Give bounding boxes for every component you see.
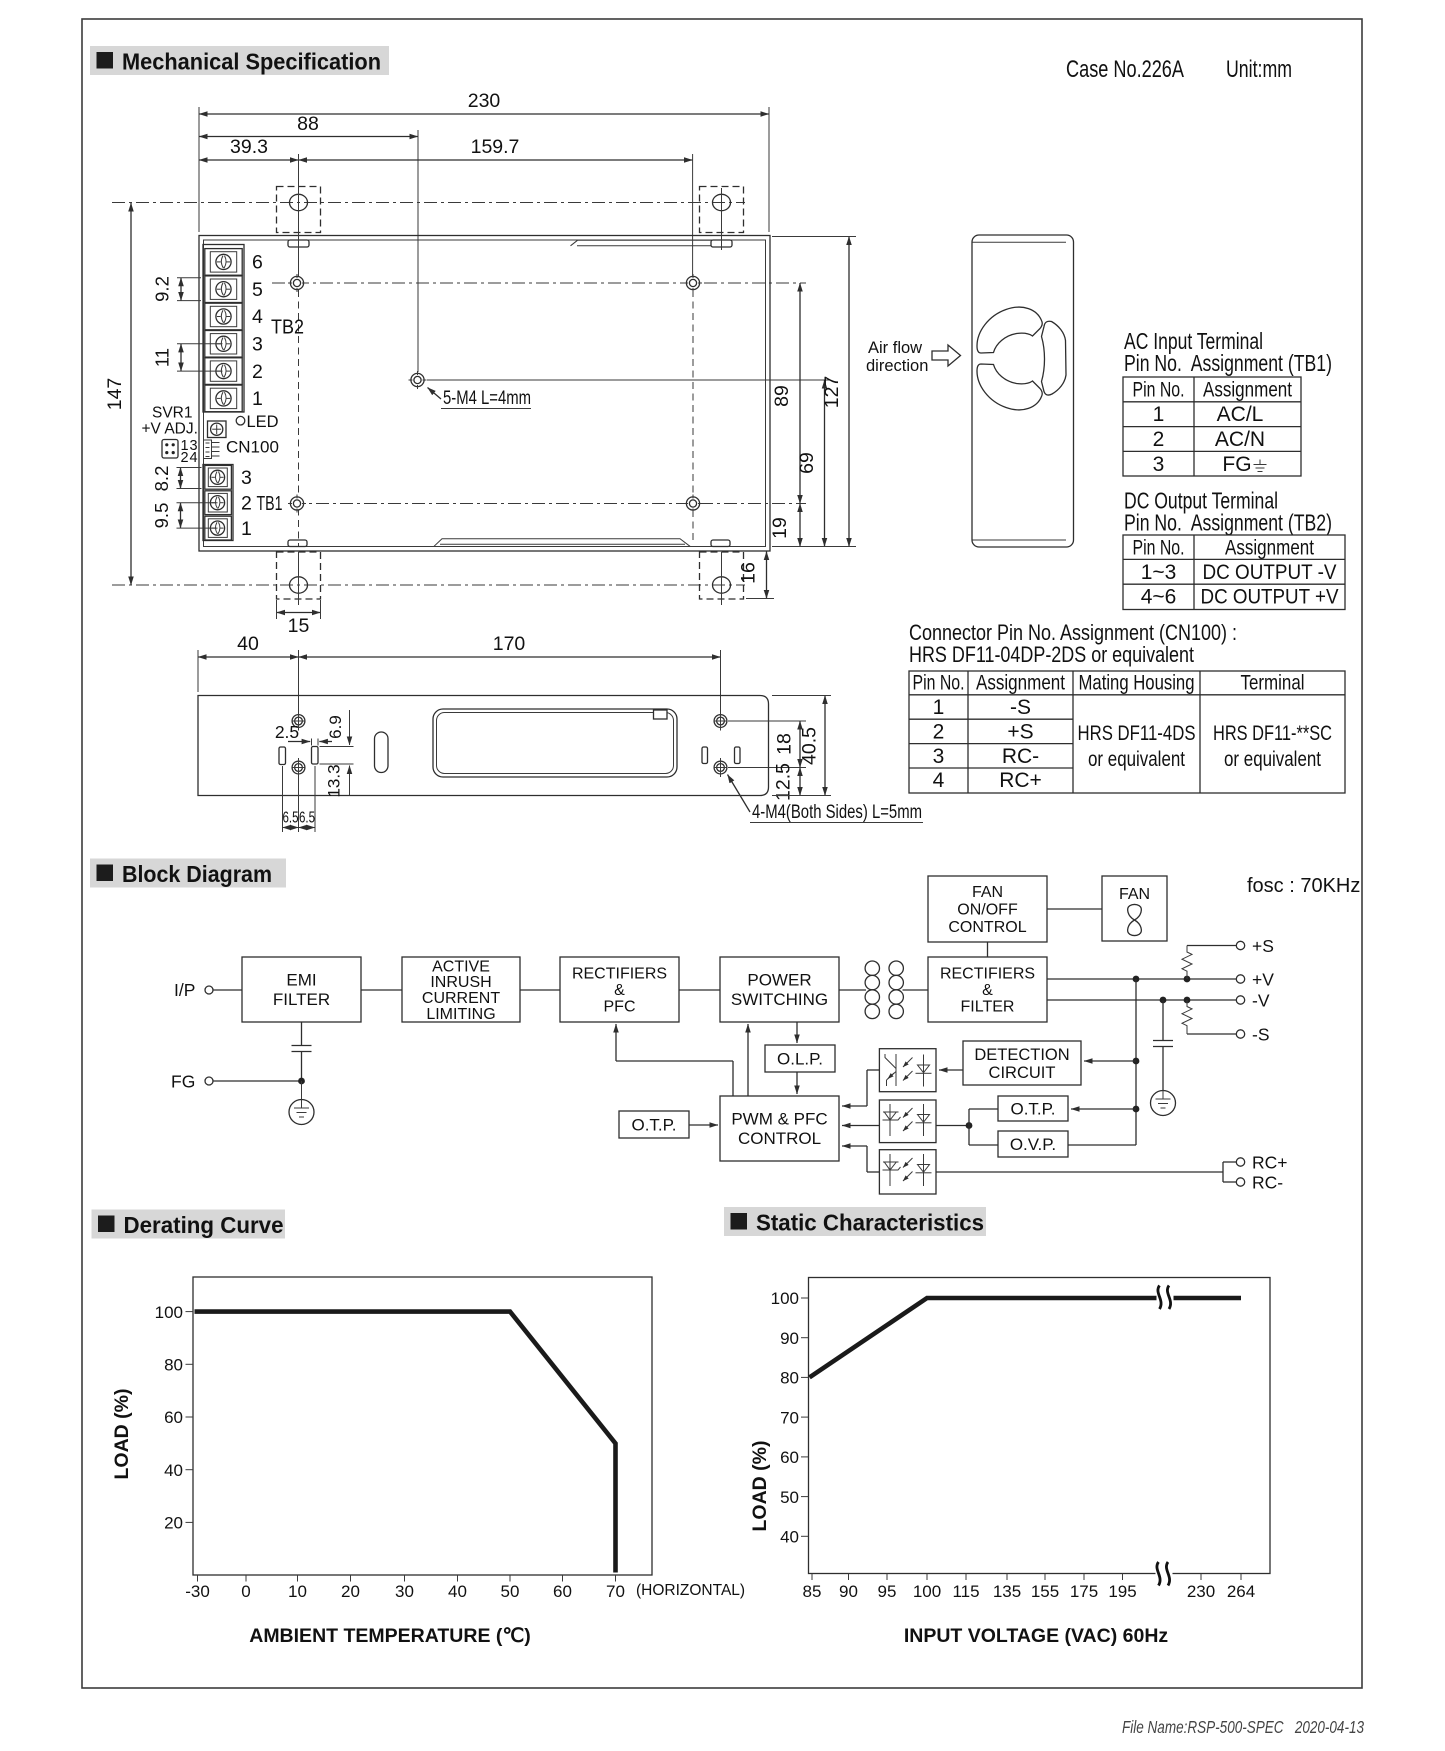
- TB1 pin number labels: [241, 467, 283, 540]
- terminal -S: [1236, 1025, 1269, 1045]
- svg-text:40: 40: [448, 1582, 467, 1601]
- svg-text:AC/L: AC/L: [1217, 403, 1264, 426]
- table TB1 pin assignment: [1123, 377, 1301, 476]
- svg-text:6.9: 6.9: [326, 715, 345, 739]
- svg-text:95: 95: [878, 1582, 897, 1601]
- svg-text:30: 30: [395, 1582, 414, 1601]
- mounting bracket top-left (dashed): [277, 187, 321, 248]
- svg-text:RECTIFIERS: RECTIFIERS: [572, 966, 667, 983]
- svg-text:230: 230: [1187, 1582, 1215, 1601]
- svg-text:10: 10: [288, 1582, 307, 1601]
- label 5-M4 L=4mm with leader: [428, 387, 532, 409]
- wire U2 to PWM: [842, 1125, 879, 1127]
- side view slot left-1: [279, 747, 286, 765]
- svg-text:170: 170: [493, 633, 526, 655]
- fan grille blade right: [1042, 321, 1067, 395]
- svg-text:Assignment: Assignment: [976, 672, 1065, 695]
- svg-text:70: 70: [780, 1408, 799, 1427]
- svg-text:HRS DF11-**SC: HRS DF11-**SC: [1213, 722, 1332, 745]
- svg-text:RECTIFIERS: RECTIFIERS: [940, 966, 1035, 983]
- svg-text:fosc : 70KHz: fosc : 70KHz: [1247, 875, 1360, 897]
- air flow arrow: [932, 345, 961, 366]
- svg-text:DETECTION: DETECTION: [974, 1046, 1069, 1064]
- static chart frame: [809, 1278, 1271, 1574]
- svg-text:Assignment: Assignment: [1203, 379, 1292, 402]
- side view slot right-1: [702, 747, 708, 764]
- svg-text:69: 69: [796, 452, 818, 474]
- svg-text:13.3: 13.3: [325, 764, 344, 797]
- svg-text:HRS DF11-4DS: HRS DF11-4DS: [1078, 722, 1196, 745]
- svg-text:3: 3: [933, 745, 945, 768]
- svg-text:Mechanical Specification: Mechanical Specification: [122, 49, 381, 75]
- svg-text:-30: -30: [185, 1582, 210, 1601]
- capacitor output: [1153, 1000, 1173, 1091]
- svg-text:SWITCHING: SWITCHING: [731, 990, 828, 1009]
- svg-text:4: 4: [190, 450, 198, 466]
- svg-text:Block Diagram: Block Diagram: [122, 861, 272, 887]
- dimension 40.5: [772, 696, 831, 796]
- block EMI FILTER: [242, 957, 361, 1022]
- extension line from 5-M4 hole: [427, 379, 830, 381]
- wire PWM to power switching: [747, 1024, 749, 1096]
- optocoupler U3: [879, 1150, 936, 1194]
- dimension 12.5: [773, 763, 801, 801]
- axis break on curve: [1157, 1286, 1174, 1310]
- svg-text:40: 40: [164, 1461, 183, 1480]
- svg-text:FILTER: FILTER: [273, 990, 330, 1009]
- svg-text:159.7: 159.7: [471, 136, 520, 158]
- svg-text:5: 5: [252, 279, 263, 301]
- svg-text:4: 4: [933, 769, 945, 792]
- resistor +S sense: [1182, 946, 1236, 980]
- svg-text:Static Characteristics: Static Characteristics: [756, 1210, 984, 1236]
- svg-text:11: 11: [152, 348, 173, 367]
- svg-text:CONTROL: CONTROL: [738, 1129, 821, 1148]
- section header: Block Diagram: [90, 859, 286, 888]
- axis break on x-axis: [1156, 1562, 1173, 1586]
- svg-text:PWM & PFC: PWM & PFC: [731, 1110, 827, 1129]
- svg-text:RC-: RC-: [1002, 745, 1039, 768]
- wire power switching to OLP: [796, 1022, 798, 1043]
- svg-text:8.2: 8.2: [151, 466, 172, 492]
- svg-text:FG: FG: [171, 1072, 195, 1092]
- svg-text:O.L.P.: O.L.P.: [777, 1049, 823, 1068]
- svg-text:+V ADJ.: +V ADJ.: [142, 421, 198, 438]
- svg-text:DC OUTPUT +V: DC OUTPUT +V: [1201, 586, 1339, 609]
- table CN100 connector: [909, 671, 1345, 793]
- svg-text:-S: -S: [1010, 696, 1031, 719]
- svg-text:O.T.P.: O.T.P.: [631, 1115, 676, 1134]
- svg-text:89: 89: [771, 385, 793, 407]
- earth ground symbol right: [1151, 1091, 1176, 1116]
- static curve line: [810, 1298, 1242, 1377]
- svg-text:1: 1: [252, 388, 263, 410]
- svg-text:Mating Housing: Mating Housing: [1079, 672, 1195, 695]
- svg-text:16: 16: [738, 562, 760, 584]
- transformer T1: [839, 961, 928, 1019]
- bottom louver groove: [434, 539, 690, 547]
- svg-text:3: 3: [1153, 453, 1165, 476]
- svg-text:20: 20: [164, 1514, 183, 1533]
- svg-text:or equivalent: or equivalent: [1088, 748, 1185, 771]
- chassis hole B1: [288, 495, 306, 513]
- wire -V rail: [1047, 997, 1236, 1004]
- fan end view case: [972, 235, 1074, 547]
- svg-text:19: 19: [769, 517, 791, 539]
- top louver groove: [571, 240, 712, 246]
- wire OLP to PWM: [796, 1072, 798, 1094]
- svg-text:60: 60: [780, 1448, 799, 1467]
- svg-text:2.5: 2.5: [275, 722, 299, 742]
- svg-text:&: &: [614, 982, 625, 999]
- svg-text:40.5: 40.5: [799, 727, 821, 765]
- side view screw bottom-left: [292, 758, 305, 777]
- svg-text:POWER: POWER: [747, 971, 811, 990]
- centerline hole row 1: [272, 282, 806, 284]
- svg-text:Assignment: Assignment: [1225, 537, 1314, 560]
- static x-axis ticks/labels: [803, 1574, 1256, 1602]
- title AC Input Terminal: [1124, 328, 1332, 376]
- svg-text:CURRENT: CURRENT: [422, 990, 500, 1007]
- svg-text:PFC: PFC: [604, 999, 636, 1016]
- side view slot left-2: [312, 747, 319, 765]
- svg-text:2: 2: [181, 450, 189, 466]
- svg-text:CN100: CN100: [226, 438, 279, 457]
- svg-text:1: 1: [241, 518, 252, 540]
- feedback wire rectifiers-PFC from PWM: [616, 1024, 733, 1096]
- fan grille blade top: [977, 307, 1042, 353]
- title Connector Pin No. Assignment (CN100): [909, 620, 1237, 667]
- svg-text:80: 80: [780, 1369, 799, 1388]
- earth ground symbol left: [289, 1081, 314, 1125]
- svg-text:2: 2: [933, 720, 945, 743]
- svg-text:Pin No.: Pin No.: [1133, 379, 1185, 402]
- wire +V rail: [1047, 976, 1236, 983]
- svg-text:1: 1: [933, 696, 945, 719]
- capacitor FG branch: [292, 1022, 312, 1081]
- derating y-axis ticks/labels: [155, 1303, 193, 1533]
- potentiometer SVR1: [208, 421, 227, 438]
- label SVR1 +V ADJ.: [142, 405, 198, 438]
- svg-text:LIMITING: LIMITING: [426, 1006, 495, 1023]
- dimension 159.7: [299, 136, 693, 276]
- svg-text:90: 90: [780, 1329, 799, 1348]
- svg-text:6: 6: [252, 252, 263, 274]
- wire I/P to EMI: [213, 989, 242, 991]
- svg-text:1~3: 1~3: [1141, 561, 1177, 584]
- wire sense to OVP: [1068, 1144, 1136, 1146]
- svg-text:I/P: I/P: [174, 980, 195, 1000]
- mounting bracket top-right (dashed): [700, 187, 744, 251]
- dimension 69: [796, 380, 825, 547]
- wire rectifiers to power switching: [679, 989, 720, 991]
- chassis hole B2: [684, 495, 702, 513]
- section header: Mechanical Specification: [90, 46, 389, 75]
- svg-text:100: 100: [771, 1289, 799, 1308]
- LED indicator: [236, 413, 278, 431]
- terminal block TB1: [203, 465, 233, 541]
- svg-text:Air flow: Air flow: [868, 339, 922, 357]
- wire sense to OTP right: [1071, 1108, 1136, 1110]
- svg-text:15: 15: [288, 615, 310, 637]
- svg-text:100: 100: [155, 1303, 183, 1322]
- svg-text:O.T.P.: O.T.P.: [1010, 1099, 1055, 1118]
- svg-text:18: 18: [774, 733, 796, 755]
- svg-text:DC OUTPUT -V: DC OUTPUT -V: [1203, 561, 1337, 584]
- wire sense to detection: [1084, 1060, 1136, 1062]
- block DETECTION CIRCUIT: [963, 1041, 1081, 1085]
- sense bus vertical: [1133, 979, 1140, 1145]
- dimension 39.3: [199, 136, 299, 160]
- dimension 230: [199, 90, 769, 232]
- wire detection to U1: [939, 1069, 963, 1071]
- dimension 9.2 (TB2 pitch): [152, 276, 202, 302]
- optocoupler U1: [879, 1049, 936, 1092]
- dimension 9.5 (TB1): [151, 503, 218, 529]
- dimension 88: [199, 113, 418, 372]
- svg-text:9.5: 9.5: [151, 503, 172, 529]
- wire RC to U3: [936, 1162, 1236, 1182]
- centerline top brackets: [112, 202, 745, 204]
- junction FG node: [298, 1078, 305, 1085]
- terminal +S: [1236, 936, 1274, 956]
- svg-text:File Name:RSP-500-SPEC 2020-: File Name:RSP-500-SPEC 2020-04-13: [1122, 1717, 1364, 1737]
- svg-text:135: 135: [993, 1582, 1021, 1601]
- svg-text:TB2: TB2: [271, 316, 304, 339]
- svg-text:Pin No.: Pin No.: [913, 672, 965, 695]
- connector CN100 4-pin socket: [162, 440, 178, 459]
- svg-text:4-M4(Both Sides) L=5mm: 4-M4(Both Sides) L=5mm: [752, 801, 922, 823]
- svg-text:+V: +V: [1252, 970, 1274, 990]
- case number note: [1066, 56, 1292, 83]
- terminal FG: [171, 1072, 213, 1092]
- side view oval hole: [375, 732, 389, 773]
- svg-text:Case No.226A: Case No.226A: [1066, 56, 1184, 83]
- static y-axis ticks/labels: [771, 1289, 809, 1546]
- label Air flow direction: [866, 339, 928, 375]
- terminal RC-: [1236, 1173, 1283, 1193]
- svg-text:127: 127: [821, 376, 843, 409]
- svg-text:RC-: RC-: [1252, 1173, 1283, 1193]
- svg-text:FG: FG: [1222, 453, 1251, 476]
- centerline hole row 2: [292, 503, 806, 505]
- svg-text:230: 230: [468, 90, 501, 112]
- svg-text:100: 100: [913, 1582, 941, 1601]
- svg-text:Pin No.: Pin No.: [1133, 537, 1185, 560]
- block ACTIVE INRUSH CURRENT LIMITING: [402, 957, 520, 1023]
- svg-text:+S: +S: [1252, 936, 1274, 956]
- svg-text:INPUT VOLTAGE (VAC) 60Hz: INPUT VOLTAGE (VAC) 60Hz: [904, 1625, 1169, 1647]
- bracket centerline verticals: [299, 154, 694, 546]
- block RECTIFIERS &amp; FILTER: [928, 957, 1047, 1022]
- block O.T.P. left: [619, 1111, 689, 1138]
- block PWM &amp; PFC CONTROL: [720, 1096, 839, 1161]
- side view screw top-right: [714, 712, 727, 731]
- chassis hole center 5-M4: [409, 371, 427, 389]
- svg-text:4~6: 4~6: [1141, 586, 1177, 609]
- side view screw bottom-right: [714, 758, 727, 777]
- optocoupler U2: [879, 1100, 936, 1143]
- dimension 147: [104, 203, 131, 585]
- svg-text:-V: -V: [1252, 991, 1270, 1011]
- dimension 18: [728, 721, 806, 768]
- wire OTP to PWM: [689, 1124, 718, 1126]
- svg-text:264: 264: [1227, 1582, 1255, 1601]
- svg-text:SVR1: SVR1: [152, 405, 193, 422]
- svg-text:+S: +S: [1007, 720, 1033, 743]
- svg-text:Terminal: Terminal: [1241, 672, 1305, 695]
- svg-text:90: 90: [839, 1582, 858, 1601]
- svg-text:60: 60: [164, 1408, 183, 1427]
- CN100 pin labels 1 3 / 2 4: [181, 438, 198, 466]
- svg-text:2: 2: [241, 492, 252, 514]
- svg-text:FAN: FAN: [1119, 886, 1150, 903]
- svg-text:0: 0: [241, 1582, 250, 1601]
- svg-text:195: 195: [1108, 1582, 1136, 1601]
- svg-text:-S: -S: [1252, 1025, 1270, 1045]
- dimension 127: [772, 237, 856, 547]
- derating curve line: [195, 1312, 616, 1573]
- label 4-M4(Both Sides) L=5mm with leader: [728, 775, 924, 824]
- terminal -V: [1236, 991, 1270, 1011]
- terminal block TB2: [203, 245, 244, 413]
- dimension 11 (TB2 pin 2-3 centers): [152, 344, 223, 371]
- svg-text:2: 2: [1153, 428, 1165, 451]
- svg-text:70: 70: [606, 1582, 625, 1601]
- svg-text:2: 2: [252, 361, 263, 383]
- svg-text:175: 175: [1070, 1582, 1098, 1601]
- section header: Static Characteristics: [724, 1207, 986, 1236]
- wire EMI to inrush: [361, 989, 402, 991]
- side view slot right-2: [735, 747, 741, 764]
- svg-text:LOAD (%): LOAD (%): [749, 1441, 771, 1532]
- derating chart frame: [193, 1277, 652, 1575]
- wire fan control to fan: [1047, 908, 1102, 910]
- dimension 15: [277, 600, 321, 637]
- svg-text:50: 50: [780, 1488, 799, 1507]
- svg-text:40: 40: [780, 1528, 799, 1547]
- svg-text:ACTIVE: ACTIVE: [432, 958, 490, 975]
- svg-text:88: 88: [297, 113, 319, 135]
- dimension 40 (side view): [198, 633, 299, 692]
- svg-text:39.3: 39.3: [230, 136, 268, 158]
- mounting bracket bottom-left (dashed): [277, 540, 321, 605]
- svg-text:115: 115: [952, 1582, 979, 1601]
- svg-text:50: 50: [501, 1582, 520, 1601]
- svg-text:6.5: 6.5: [299, 810, 315, 827]
- terminal +V: [1236, 970, 1274, 990]
- svg-text:RC+: RC+: [1252, 1153, 1288, 1173]
- svg-text:ON/OFF: ON/OFF: [957, 902, 1018, 919]
- terminal RC+: [1236, 1153, 1287, 1173]
- chassis hole A1: [288, 274, 306, 292]
- section header: Derating Curve: [92, 1210, 286, 1239]
- svg-text:AMBIENT TEMPERATURE (℃): AMBIENT TEMPERATURE (℃): [249, 1625, 531, 1647]
- title DC Output Terminal: [1124, 488, 1332, 536]
- fan grille blade bottom: [977, 364, 1042, 410]
- svg-text:LOAD (%): LOAD (%): [111, 1389, 133, 1480]
- svg-text:RC+: RC+: [999, 769, 1042, 792]
- wire inrush to rectifiers: [520, 989, 560, 991]
- terminal I/P: [174, 980, 213, 1000]
- svg-text:or equivalent: or equivalent: [1224, 748, 1321, 771]
- dimension 6.5 6.5: [283, 766, 316, 832]
- svg-text:1: 1: [1153, 403, 1165, 426]
- svg-text:direction: direction: [866, 357, 928, 375]
- svg-text:HRS DF11-04DP-2DS or equivalen: HRS DF11-04DP-2DS or equivalent: [909, 642, 1194, 667]
- svg-text:3: 3: [252, 334, 263, 356]
- mounting bracket bottom-right (dashed): [700, 540, 744, 605]
- svg-text:&: &: [982, 982, 993, 999]
- svg-text:(HORIZONTAL): (HORIZONTAL): [636, 1582, 745, 1599]
- dimension 170 (side view): [299, 633, 721, 714]
- block O.T.P. right: [998, 1096, 1068, 1121]
- centerline bottom brackets: [112, 584, 745, 586]
- svg-text:5-M4 L=4mm: 5-M4 L=4mm: [443, 387, 531, 409]
- dimension 89: [771, 283, 800, 504]
- svg-text:147: 147: [104, 378, 126, 411]
- wire U3 to PWM: [842, 1146, 879, 1172]
- wire fan control to rectifiers-filter: [987, 942, 989, 957]
- table TB2 pin assignment: [1123, 535, 1345, 610]
- side view body: [198, 696, 769, 796]
- svg-text:6.5: 6.5: [283, 810, 299, 827]
- svg-text:40: 40: [237, 633, 259, 655]
- derating x-axis ticks/labels: [185, 1575, 625, 1601]
- dimension 16: [738, 552, 775, 599]
- svg-text:Pin No. Assignment (TB2): Pin No. Assignment (TB2): [1124, 510, 1332, 536]
- svg-text:60: 60: [553, 1582, 572, 1601]
- svg-text:Pin No. Assignment (TB1): Pin No. Assignment (TB1): [1124, 350, 1332, 376]
- wire U1 to PWM: [842, 1070, 879, 1106]
- svg-text:Unit:mm: Unit:mm: [1226, 56, 1292, 83]
- dimension 6.9: [320, 710, 354, 747]
- dimension 8.2 (TB1): [151, 466, 202, 492]
- dimension 2.5: [275, 722, 332, 746]
- svg-text:CONTROL: CONTROL: [948, 919, 1026, 936]
- svg-text:EMI: EMI: [286, 971, 316, 990]
- dimension 13.3: [320, 764, 354, 798]
- dimension 19: [769, 504, 800, 547]
- block RECTIFIERS &amp; PFC: [560, 957, 679, 1022]
- svg-text:FAN: FAN: [972, 884, 1003, 901]
- side view screw top-left: [292, 712, 305, 731]
- chassis hole A2: [684, 274, 702, 292]
- svg-text:FILTER: FILTER: [961, 999, 1015, 1016]
- svg-text:INRUSH: INRUSH: [430, 974, 491, 991]
- chassis outline (top view): [199, 236, 770, 552]
- svg-text:Derating Curve: Derating Curve: [124, 1212, 284, 1238]
- block FAN ON/OFF CONTROL: [928, 876, 1047, 942]
- svg-text:20: 20: [341, 1582, 360, 1601]
- svg-text:155: 155: [1031, 1582, 1059, 1601]
- svg-text:LED: LED: [247, 413, 279, 431]
- side view vent window: [433, 709, 677, 777]
- block FAN with fan symbol: [1102, 876, 1167, 941]
- svg-text:80: 80: [164, 1356, 183, 1375]
- TB2 pin number labels: [252, 252, 304, 411]
- svg-text:CIRCUIT: CIRCUIT: [989, 1064, 1056, 1082]
- block O.L.P.: [765, 1045, 835, 1072]
- wire U2 to OTP/OVP branch: [936, 1109, 998, 1145]
- svg-text:O.V.P.: O.V.P.: [1010, 1135, 1056, 1154]
- connector CN100 header symbol: [204, 440, 220, 459]
- block POWER SWITCHING: [720, 957, 839, 1022]
- svg-text:3: 3: [241, 467, 252, 489]
- wire FG: [213, 1080, 302, 1082]
- svg-text:AC/N: AC/N: [1215, 428, 1265, 451]
- block O.V.P.: [998, 1131, 1068, 1157]
